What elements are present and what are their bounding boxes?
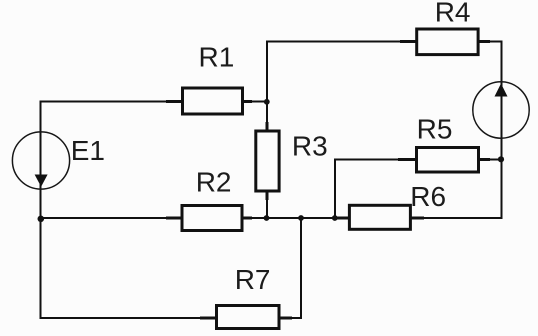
svg-text:R6: R6 xyxy=(410,181,446,212)
svg-text:R1: R1 xyxy=(199,42,235,73)
svg-text:R2: R2 xyxy=(196,166,232,197)
svg-text:R5: R5 xyxy=(417,113,453,144)
svg-text:R7: R7 xyxy=(235,264,271,295)
svg-text:R4: R4 xyxy=(435,0,471,28)
svg-text:E1: E1 xyxy=(71,135,105,166)
svg-text:R3: R3 xyxy=(292,130,328,161)
